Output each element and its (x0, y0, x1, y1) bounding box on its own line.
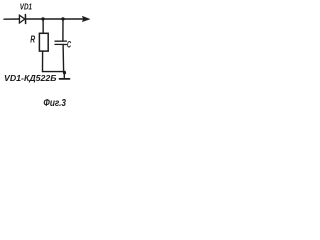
output arrow terminal (82, 16, 89, 21)
wire top rail right segment (26, 18, 84, 20)
wire capacitor bottom lead (62, 45, 65, 72)
wire top rail left segment (4, 18, 20, 20)
svg-text:Фиг.3: Фиг.3 (43, 98, 66, 109)
node junction at ground (63, 71, 66, 75)
node junction at capacitor branch (61, 17, 64, 20)
wire bottom rail (43, 71, 65, 73)
wire ground stub (63, 73, 65, 79)
diode VD1 (19, 15, 25, 24)
svg-text:VD1-КД522Б: VD1-КД522Б (4, 73, 57, 83)
wire resistor bottom lead (42, 51, 44, 71)
ground (60, 78, 70, 80)
wire capacitor top lead (62, 19, 64, 41)
node junction at resistor branch (41, 17, 44, 20)
svg-text:R: R (30, 35, 35, 46)
svg-text:C: C (67, 39, 71, 49)
wire resistor top lead (42, 19, 44, 33)
svg-text:VD1: VD1 (20, 2, 32, 12)
resistor R (39, 33, 48, 51)
capacitor C (55, 41, 67, 44)
